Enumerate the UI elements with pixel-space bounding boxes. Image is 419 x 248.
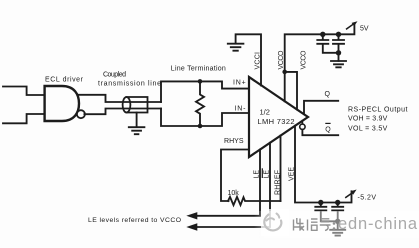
coupled transmission line T1 — [123, 97, 148, 113]
svg-text:IN+: IN+ — [233, 80, 246, 87]
wire: LE pin down to arrow line — [196, 150, 260, 216]
svg-text:LE: LE — [254, 170, 261, 179]
wire: second VCCO pin — [285, 72, 297, 110]
wire: Q output — [304, 101, 338, 114]
junction dot on VCCO line — [282, 70, 287, 75]
svg-text:RS-PECL Output: RS-PECL Output — [348, 106, 408, 113]
arrowhead LEbar — [186, 223, 197, 230]
capacitor C1 (top left decoupling) — [317, 34, 338, 53]
wire: top input to ECL driver — [3, 87, 45, 96]
comparator U2 1/2 LMH7322 — [249, 77, 308, 157]
watermark translucent panel — [254, 211, 419, 238]
svg-text:RHREF: RHREF — [275, 170, 282, 195]
wire: RHREF pin down to hysteresis resistor — [280, 136, 282, 201]
bubble: inverted output Qbar — [300, 124, 305, 129]
svg-text:LE: LE — [264, 170, 271, 179]
svg-text:VCCO: VCCO — [301, 50, 308, 70]
svg-text:ECL driver: ECL driver — [45, 77, 84, 84]
junction dot: bottom rail cap 4 — [335, 200, 340, 205]
bubble on ECL driver inverting output — [77, 110, 85, 118]
watermark hanzi 信 — [308, 219, 318, 231]
+5V supply arrow — [347, 24, 355, 29]
capacitor C2 (top right decoupling) — [333, 34, 344, 61]
junction dot: cap common node — [336, 50, 341, 55]
svg-text:Line Termination: Line Termination — [171, 66, 226, 73]
svg-text:RHYS: RHYS — [224, 138, 244, 145]
wire: bottom input to ECL driver — [3, 114, 45, 123]
svg-text:Q: Q — [325, 126, 331, 133]
ECL driver gate U1 — [45, 86, 79, 121]
svg-text:VCCI: VCCI — [255, 52, 262, 70]
wire: ECL inverted output to transmission line — [84, 109, 161, 115]
ground symbol top right — [331, 61, 346, 67]
svg-text:1/2: 1/2 — [260, 108, 270, 117]
ground under transmission line — [129, 113, 145, 135]
ground symbol at VCCI — [228, 44, 244, 51]
wire: RHYS pin loop — [221, 150, 249, 202]
wire: VCCI pin up and left to ground — [236, 34, 261, 85]
wire: VCCO rail with right stub to +5V — [285, 23, 355, 101]
junction dot: termination top — [198, 79, 203, 84]
junction dot: bottom cap common node — [335, 219, 340, 224]
watermark hanzi 号 — [320, 219, 331, 231]
svg-text:Coupled: Coupled — [103, 72, 126, 79]
ground symbol bottom right — [330, 230, 345, 236]
svg-text:VEE: VEE — [289, 167, 296, 181]
wire: ECL true output to transmission line — [78, 95, 162, 102]
wire: LEbar pin down to arrow line — [196, 143, 270, 227]
junction dot: termination bottom — [198, 124, 203, 129]
svg-text:transmission line: transmission line — [98, 80, 161, 87]
-5.2V supply arrow — [346, 192, 353, 197]
resistor R2 10k — [228, 197, 281, 205]
watermark logo swirl — [264, 214, 281, 231]
svg-text:10k: 10k — [228, 190, 240, 197]
svg-text:edn-china: edn-china — [338, 215, 418, 233]
junction dot: top rail cap 2 — [336, 32, 341, 37]
junction dot: top rail cap 1 — [320, 32, 325, 37]
arrowhead LE — [186, 212, 197, 219]
junction dot: bottom rail cap 3 — [318, 200, 323, 205]
capacitor C4 (bottom right) — [332, 203, 343, 230]
capacitor C3 (bottom left) — [315, 203, 337, 222]
svg-text:LE levels referred to VCCO: LE levels referred to VCCO — [88, 217, 181, 224]
wire: VEE pin down and right to -5.2V rail — [295, 126, 352, 203]
watermark colon — [333, 222, 336, 230]
line termination: bottom rail wire to IN- — [161, 109, 249, 127]
svg-text:VOL = 3.5V: VOL = 3.5V — [348, 125, 388, 132]
watermark logo backing glow — [261, 209, 289, 236]
svg-text:Q: Q — [325, 91, 331, 98]
svg-text:LMH 7322: LMH 7322 — [258, 117, 295, 126]
resistor R-term (line termination) — [196, 81, 204, 126]
svg-text:IN-: IN- — [235, 106, 247, 113]
wire: Qbar output — [302, 130, 338, 136]
line termination: top rail wire to IN+ — [161, 81, 249, 102]
svg-text:VOH = 3.9V: VOH = 3.9V — [348, 115, 388, 122]
svg-text:5V: 5V — [360, 26, 369, 33]
svg-text:-5.2V: -5.2V — [358, 195, 377, 202]
wire: stub from triangle edge to Qbar bubble — [301, 121, 303, 124]
watermark hanzi 微 — [294, 218, 305, 231]
svg-text:VCCO: VCCO — [278, 50, 285, 70]
